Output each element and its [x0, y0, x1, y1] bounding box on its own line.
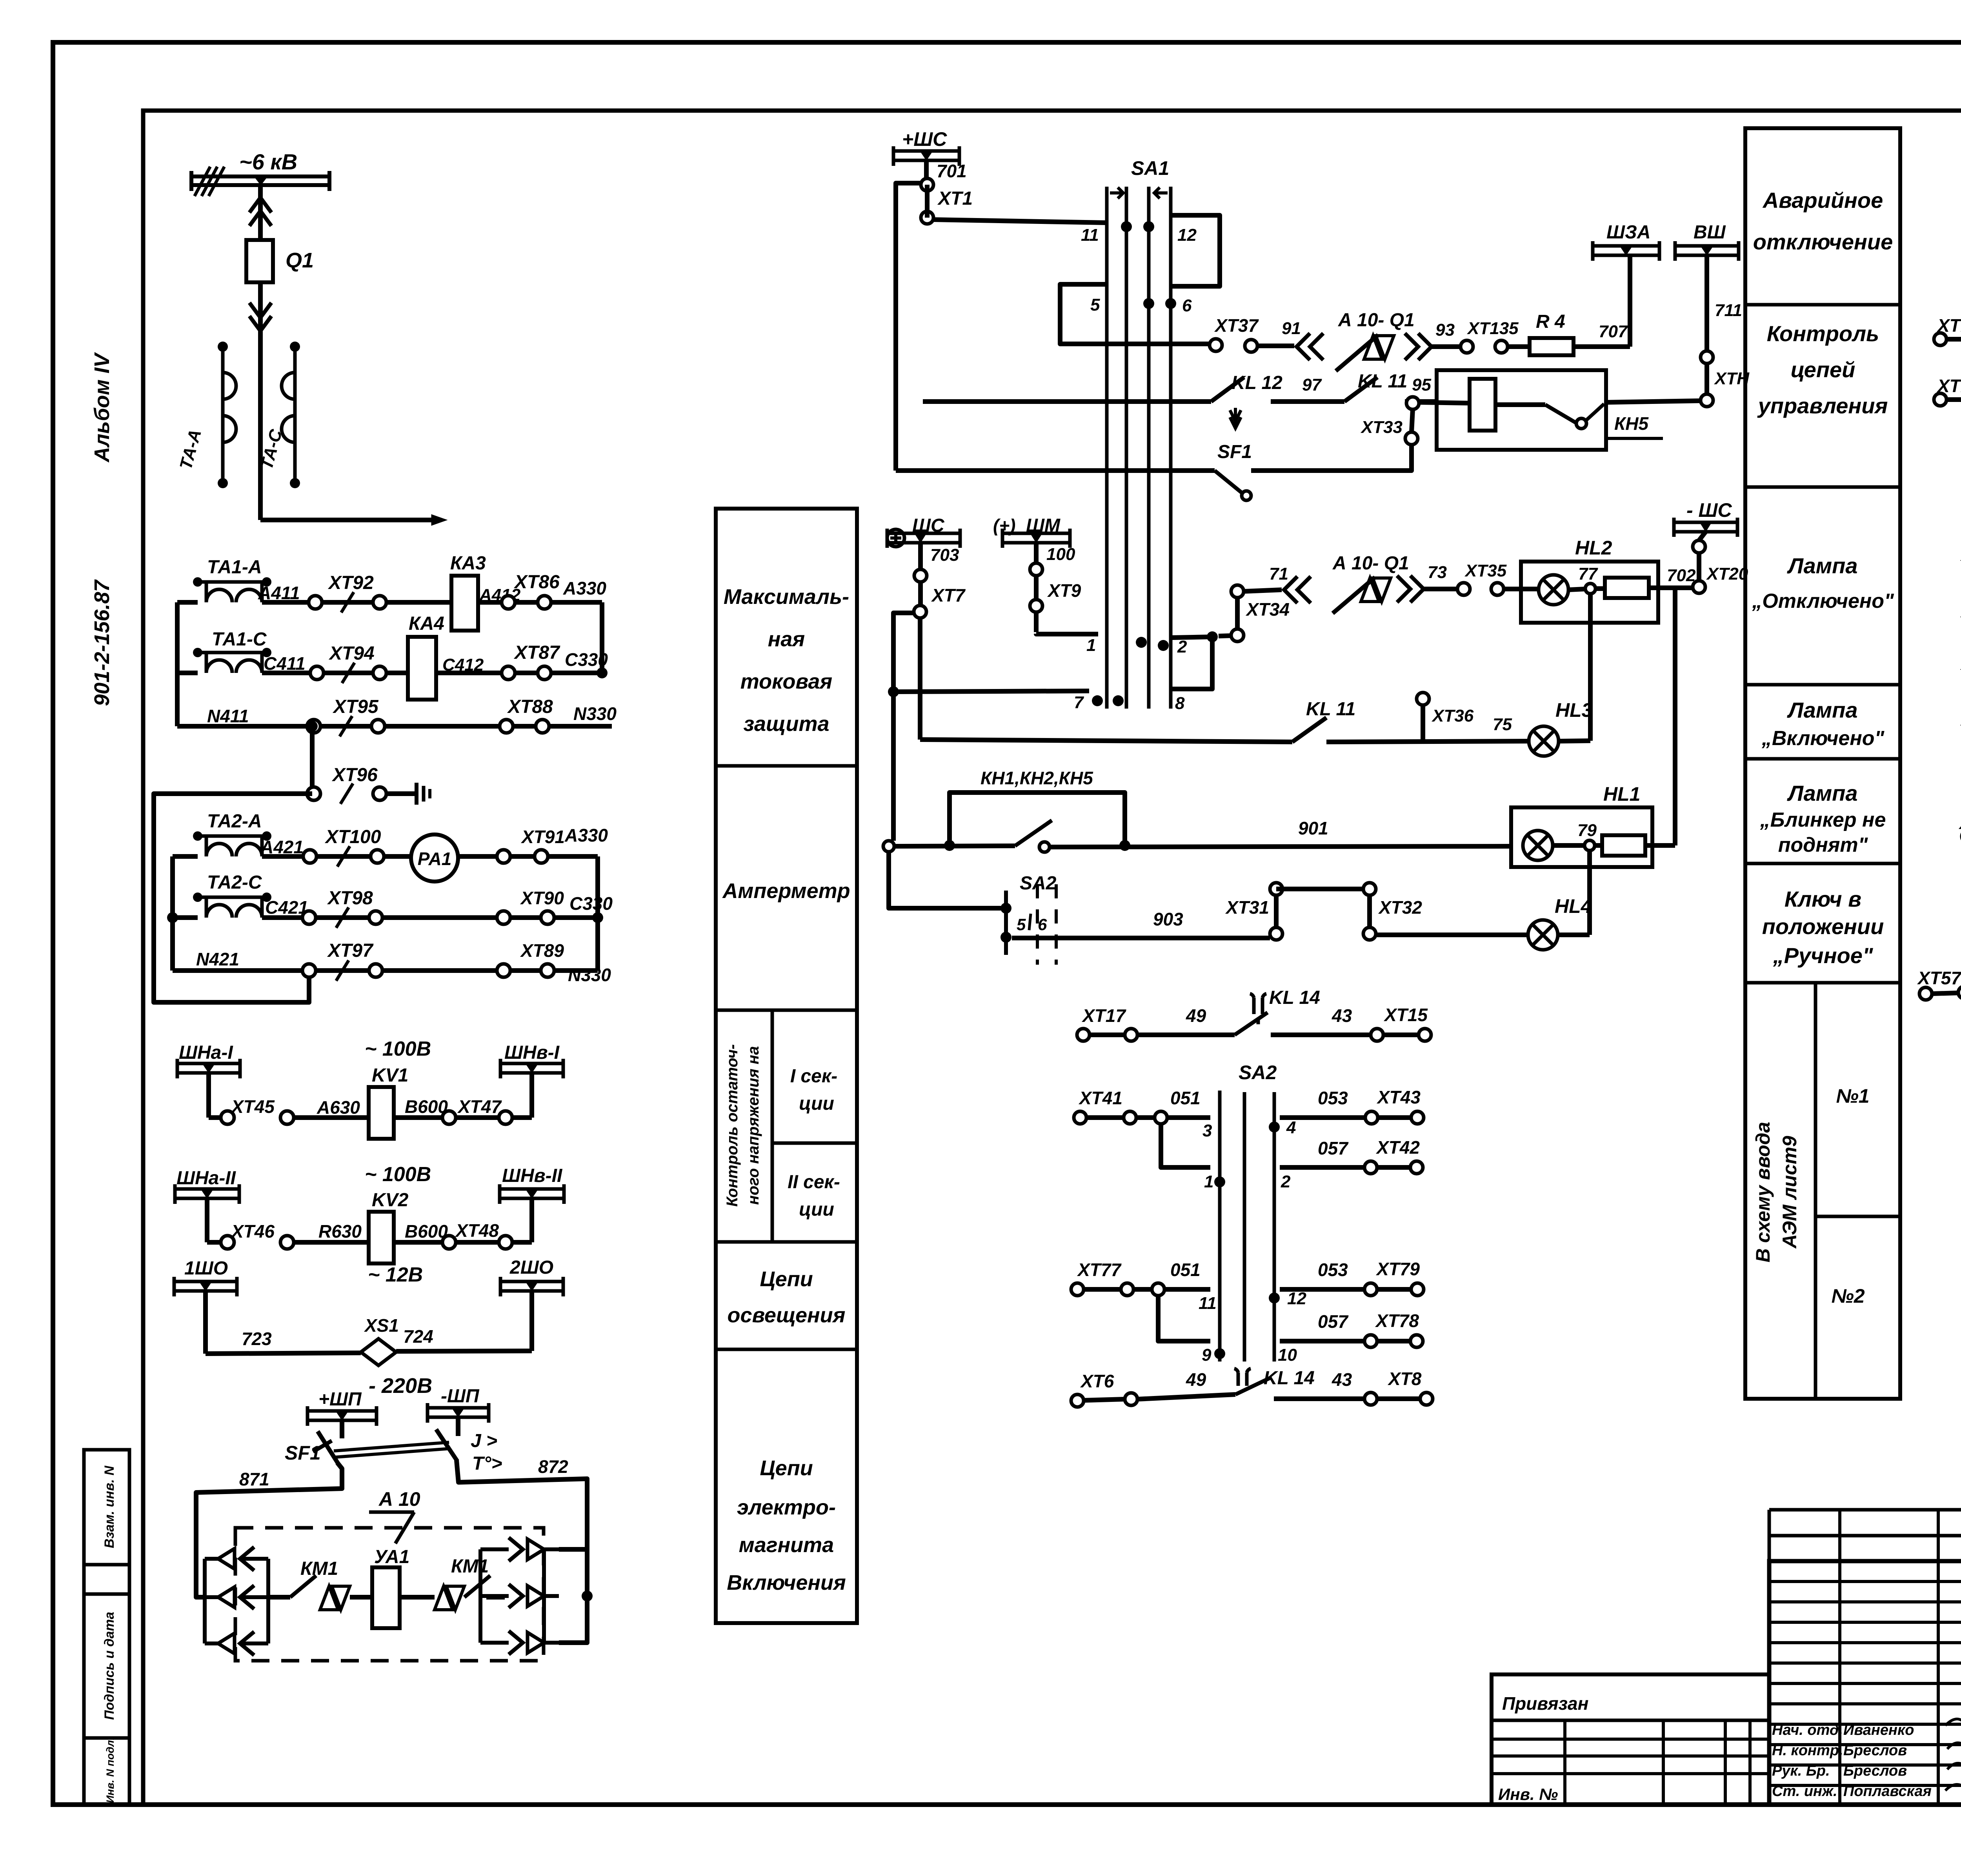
wire 057 row to XT42 — [1280, 1165, 1364, 1170]
terminals XT88 — [500, 720, 513, 733]
svg-text:5: 5 — [1090, 295, 1100, 314]
wire KL11 row left — [920, 740, 1292, 742]
svg-text:ШНа-II: ШНа-II — [176, 1168, 236, 1189]
wire 43 upper — [1271, 1033, 1371, 1037]
svg-text:ШНв-II: ШНв-II — [502, 1165, 563, 1186]
svg-text:ХТ46: ХТ46 — [230, 1221, 275, 1242]
resistor HL1 — [1595, 843, 1602, 848]
wire A412 to A330 — [478, 600, 602, 605]
wire 43 lower — [1274, 1396, 1364, 1401]
svg-text:ХТ89: ХТ89 — [520, 940, 564, 961]
wire 49 KL14 lower — [1137, 1394, 1235, 1399]
svg-text:ХТ95: ХТ95 — [332, 696, 379, 717]
legend column box — [716, 509, 857, 1623]
terminals XT7 — [918, 543, 923, 612]
svg-text:-ШП: -ШП — [441, 1386, 480, 1407]
svg-text:KL 14: KL 14 — [1264, 1368, 1315, 1389]
chevron in 71 — [1284, 576, 1311, 603]
terminals XT46 — [207, 1240, 221, 1245]
SA1 right loop wire — [1171, 215, 1220, 286]
svg-text:2ШО: 2ШО — [509, 1257, 553, 1278]
svg-text:71: 71 — [1269, 564, 1288, 584]
wire XT33 to SF1 row — [1251, 445, 1412, 471]
bus ⊕ШС — [887, 529, 904, 547]
wire row N411 — [177, 724, 612, 729]
svg-text:ХТ1: ХТ1 — [937, 188, 973, 209]
chevron in — [1297, 333, 1323, 360]
wire 724 — [396, 1351, 532, 1351]
svg-text:ТА1-С: ТА1-С — [212, 629, 267, 650]
svg-text:ШНв-I: ШНв-I — [504, 1042, 560, 1063]
wire row A411 — [177, 600, 198, 605]
svg-text:А630: А630 — [317, 1097, 360, 1118]
svg-text:T°>: T°> — [472, 1453, 502, 1474]
wire 053 row to XT43 — [1280, 1115, 1365, 1120]
wire 872 — [457, 1460, 587, 1596]
wire 057 row to XT78 — [1280, 1339, 1364, 1343]
svg-text:управления: управления — [1757, 393, 1888, 418]
svg-text:711: 711 — [1715, 301, 1742, 320]
svg-text:871: 871 — [239, 1469, 269, 1489]
svg-text:ХТ96: ХТ96 — [331, 765, 378, 785]
svg-text:А411: А411 — [258, 583, 300, 603]
mechanical link SF1 — [334, 1442, 449, 1451]
svg-text:Амперметр: Амперметр — [722, 879, 850, 903]
legend Ключ в положении Ручное — [1745, 981, 1900, 985]
svg-text:053: 053 — [1318, 1260, 1348, 1280]
svg-text:УА1: УА1 — [374, 1547, 409, 1567]
wire right vertical ammeter — [595, 856, 600, 971]
wire box to XTH — [1606, 401, 1701, 402]
svg-text:ции: ции — [799, 1093, 834, 1114]
wire 711 — [1705, 255, 1709, 351]
terminals XT86 — [502, 596, 515, 609]
svg-text:АЭМ лист9: АЭМ лист9 — [1779, 1136, 1801, 1249]
wire 871 — [196, 1463, 342, 1597]
svg-text:ХТ97: ХТ97 — [327, 940, 374, 961]
svg-text:903: 903 — [1153, 909, 1183, 929]
SA2 contact dots 9 12 — [1214, 1348, 1225, 1359]
terminals XT8 — [1364, 1392, 1377, 1405]
terminals XT17 — [1077, 1029, 1090, 1041]
svg-text:Лампа: Лампа — [1786, 698, 1857, 722]
contact KH5 — [1545, 405, 1576, 423]
relay KA3 — [451, 576, 478, 631]
svg-text:ХТ91: ХТ91 — [520, 827, 565, 847]
svg-text:ВШ: ВШ — [1694, 222, 1726, 243]
svg-text:Подпись и дата: Подпись и дата — [102, 1612, 117, 1720]
svg-text:отключение: отключение — [1753, 229, 1893, 254]
wire PA1 to A330 — [458, 854, 598, 859]
terminals XT94 — [310, 666, 324, 680]
svg-text:ХТ78: ХТ78 — [1375, 1311, 1419, 1331]
wire XT1 to SA1 — [925, 185, 930, 218]
svg-text:ХТ88: ХТ88 — [507, 696, 553, 717]
svg-text:ХТ42: ХТ42 — [1375, 1137, 1420, 1158]
legend Амперметр — [716, 1009, 857, 1012]
svg-text:Инв. N подл.: Инв. N подл. — [104, 1737, 116, 1803]
wire R630 — [294, 1240, 369, 1245]
svg-text:ХТ15: ХТ15 — [1383, 1005, 1428, 1025]
wire KL12 row — [923, 399, 1211, 404]
svg-text:ХТ41: ХТ41 — [1078, 1088, 1122, 1108]
svg-text:С330: С330 — [569, 893, 613, 914]
terminals XT31 — [1270, 927, 1282, 940]
terminals XT57 — [1919, 987, 1932, 1000]
svg-text:9: 9 — [1202, 1345, 1212, 1365]
svg-text:ШЗА: ШЗА — [1606, 222, 1651, 243]
svg-text:901-2-156.87: 901-2-156.87 — [90, 579, 114, 706]
wire 051 row 3 — [1155, 1111, 1167, 1124]
terminals XT9 — [1034, 543, 1039, 632]
svg-text:ХТ135: ХТ135 — [1466, 319, 1519, 338]
svg-text:ХТ100: ХТ100 — [324, 827, 381, 847]
svg-text:95: 95 — [1412, 375, 1431, 394]
terminals XT78 — [1364, 1335, 1377, 1347]
svg-text:ХТ57: ХТ57 — [1917, 968, 1961, 988]
svg-text:А421: А421 — [260, 837, 304, 857]
svg-text:Лампа: Лампа — [1786, 553, 1857, 578]
svg-text:5: 5 — [1017, 915, 1026, 934]
wire 73 to XT35 — [1424, 587, 1457, 591]
svg-text:ХТ9: ХТ9 — [1047, 580, 1081, 601]
svg-text:77: 77 — [1578, 564, 1598, 584]
ammeter PA1 — [411, 834, 458, 882]
svg-text:6: 6 — [1038, 915, 1047, 934]
right legend column box — [1745, 128, 1900, 1399]
svg-text:12: 12 — [1177, 225, 1197, 245]
terminals XT48 — [442, 1236, 456, 1249]
svg-text:№2: №2 — [1831, 1285, 1865, 1307]
wire XT9 to SA1 contact 1 — [1036, 634, 1098, 634]
terminals XT90 — [497, 911, 510, 924]
node 79 — [1553, 843, 1584, 848]
node 77 — [1568, 589, 1585, 590]
svg-text:Поплавская: Поплавская — [1843, 1783, 1932, 1800]
SA2 contact dots 1 4 — [1214, 1176, 1225, 1187]
table Привязан — [1492, 1674, 1769, 1805]
terminals XT6 — [1071, 1394, 1084, 1407]
svg-text:ШНа-I: ШНа-I — [179, 1042, 233, 1063]
node N411 junction — [307, 721, 318, 732]
terminal XT33 junction — [1406, 397, 1419, 409]
svg-text:А330: А330 — [563, 578, 606, 598]
svg-text:901: 901 — [1298, 818, 1328, 838]
svg-text:ХТ6: ХТ6 — [1080, 1371, 1114, 1391]
svg-text:93: 93 — [1435, 320, 1455, 340]
svg-text:освещения: освещения — [728, 1303, 846, 1327]
svg-text:4: 4 — [1286, 1118, 1296, 1137]
svg-text:КА4: КА4 — [409, 613, 444, 634]
svg-text:ного напряжения на: ного напряжения на — [745, 1046, 762, 1205]
svg-text:- 220В: - 220В — [369, 1374, 432, 1398]
wire 97 — [1271, 399, 1344, 404]
svg-text:~ 100В: ~ 100В — [365, 1038, 431, 1060]
terminals XT96 — [307, 787, 320, 800]
legend N1 — [1815, 1215, 1900, 1218]
svg-text:1: 1 — [1204, 1172, 1213, 1191]
svg-text:ХТ43: ХТ43 — [1376, 1087, 1421, 1107]
svg-text:Максималь-: Максималь- — [724, 585, 849, 609]
svg-text:ХТ7: ХТ7 — [931, 585, 966, 605]
terminals XT95 — [307, 720, 320, 733]
svg-text:~ 100В: ~ 100В — [365, 1163, 431, 1186]
svg-text:79: 79 — [1577, 821, 1597, 840]
relay coil in box — [1470, 379, 1495, 431]
terminals XT47 — [442, 1111, 456, 1124]
terminals XT89 — [497, 964, 510, 977]
svg-text:ХТ35: ХТ35 — [1464, 561, 1507, 580]
svg-text:ХТ87: ХТ87 — [513, 642, 560, 663]
svg-text:43: 43 — [1332, 1369, 1352, 1390]
svg-text:Бреслов: Бреслов — [1843, 1742, 1907, 1759]
svg-text:97: 97 — [1302, 375, 1322, 394]
svg-text:ХТ32: ХТ32 — [1378, 897, 1422, 918]
wire row N421 — [173, 968, 598, 973]
svg-text:75: 75 — [1493, 715, 1512, 734]
svg-text:I сек-: I сек- — [790, 1066, 837, 1087]
terminals XT91 — [497, 850, 510, 863]
svg-text:J >: J > — [471, 1431, 497, 1451]
wire left vertical MTZ — [175, 602, 180, 726]
wire 79 down to HL4 — [1587, 851, 1592, 935]
wire raised link — [1276, 887, 1370, 891]
svg-text:В600: В600 — [405, 1096, 448, 1117]
svg-text:В схему ввода: В схему ввода — [1752, 1122, 1774, 1263]
svg-text:цепей: цепей — [1791, 357, 1855, 382]
chevron out 73 — [1397, 576, 1424, 602]
wire 71 row — [1244, 590, 1282, 591]
socket XS1 — [361, 1339, 396, 1365]
svg-text:А 10- Q1: А 10- Q1 — [1332, 553, 1409, 574]
svg-text:Цепи: Цепи — [760, 1267, 813, 1291]
svg-text:положении: положении — [1762, 914, 1884, 939]
KH bypass loop — [950, 793, 1125, 845]
svg-text:ТА2-А: ТА2-А — [207, 811, 262, 832]
terminals XT45 — [209, 1115, 221, 1120]
coil YA1 — [350, 1595, 372, 1600]
svg-text:43: 43 — [1332, 1005, 1352, 1026]
title block main box — [1769, 1561, 1961, 1805]
wire 95 — [1405, 399, 1437, 404]
svg-text:ХТ90: ХТ90 — [520, 888, 564, 908]
terminals XT43 — [1365, 1111, 1378, 1124]
wire to XT36 and HL3 — [1326, 741, 1529, 742]
svg-text:Н. контр.: Н. контр. — [1772, 1742, 1843, 1759]
wire HL4 up — [1558, 933, 1590, 937]
terminals XT79 — [1364, 1283, 1377, 1296]
terminals XT120 — [1934, 393, 1946, 406]
svg-text:7: 7 — [1074, 693, 1084, 712]
svg-text:Нач. отд.: Нач. отд. — [1772, 1722, 1843, 1738]
svg-text:магнита: магнита — [739, 1533, 834, 1557]
svg-text:ХТ31: ХТ31 — [1225, 897, 1269, 918]
wire C412 to C330 — [436, 671, 602, 675]
wire 702 down to HL1 — [1673, 588, 1677, 845]
title block revision grid — [1769, 1508, 1961, 1512]
svg-text:+ШС: +ШС — [902, 128, 947, 150]
svg-text:II сек-: II сек- — [788, 1172, 840, 1192]
svg-text:ХТ98: ХТ98 — [327, 888, 373, 909]
wire row C411 — [177, 671, 198, 675]
svg-text:ХТ34: ХТ34 — [1245, 599, 1290, 620]
connector pins 1 — [320, 1586, 338, 1610]
wire row C421 — [173, 915, 198, 920]
wire row 7 to SA1 — [893, 691, 1089, 692]
terminals XT37 — [1210, 339, 1222, 351]
svg-text:73: 73 — [1428, 563, 1447, 582]
resistor HL2 — [1595, 586, 1605, 591]
svg-text:723: 723 — [242, 1329, 272, 1349]
CT TA-C — [293, 347, 297, 483]
svg-text:Рук. Бр.: Рук. Бр. — [1772, 1763, 1830, 1779]
relay KV2 — [369, 1212, 394, 1263]
legend Контроль цепей управления — [1745, 485, 1900, 489]
svg-text:702: 702 — [1667, 566, 1696, 585]
terminals XTH — [1701, 351, 1713, 364]
legend Контроль остаточного напряжения — [716, 1240, 857, 1244]
wire ground loop to XT97 — [154, 794, 312, 1002]
svg-text:ХТ94: ХТ94 — [328, 643, 375, 664]
legend Аварийное отключение — [1745, 303, 1900, 307]
svg-text:С412: С412 — [442, 655, 484, 674]
terminal node on stem — [921, 178, 933, 191]
svg-text:Бреслов: Бреслов — [1843, 1763, 1907, 1779]
svg-text:91: 91 — [1282, 319, 1301, 338]
svg-text:ХТ37: ХТ37 — [1214, 315, 1259, 336]
terminals XT35 — [1457, 583, 1470, 595]
svg-text:С411: С411 — [264, 653, 306, 674]
svg-text:~6 кВ: ~6 кВ — [239, 149, 297, 174]
terminal XT1 — [921, 211, 933, 224]
svg-text:Инв. №: Инв. № — [1498, 1785, 1558, 1803]
svg-text:701: 701 — [937, 161, 967, 181]
wire XT7 branches — [918, 618, 922, 740]
svg-text:КА3: КА3 — [450, 553, 486, 574]
svg-text:6: 6 — [1182, 296, 1192, 315]
svg-text:N421: N421 — [196, 949, 239, 969]
svg-text:ХТ92: ХТ92 — [327, 573, 374, 593]
wire contact 2 to XT34 — [1172, 637, 1212, 638]
terminals XT135 — [1461, 340, 1473, 353]
svg-text:2: 2 — [1281, 1172, 1291, 1191]
svg-text:А330: А330 — [564, 825, 608, 845]
lamp HL2 — [1539, 575, 1568, 605]
svg-text:Цепи: Цепи — [760, 1456, 813, 1480]
wire 707 — [1574, 344, 1630, 349]
terminals XT87 — [502, 666, 515, 680]
svg-text:053: 053 — [1318, 1088, 1348, 1108]
svg-text:Ст. инж.: Ст. инж. — [1772, 1783, 1837, 1800]
terminals XT77 — [1071, 1283, 1084, 1296]
svg-text:Ключ в: Ключ в — [1785, 887, 1861, 911]
svg-text:SA1: SA1 — [1131, 157, 1169, 179]
svg-text:А 10: А 10 — [378, 1488, 420, 1510]
wire A630 — [294, 1115, 369, 1120]
resistor R4 — [1508, 344, 1530, 349]
svg-text:ХТ17: ХТ17 — [1081, 1005, 1126, 1026]
svg-text:KV1: KV1 — [372, 1065, 408, 1086]
legend Лампа Отключено — [1745, 683, 1900, 687]
svg-text:А 10- Q1: А 10- Q1 — [1338, 310, 1415, 331]
svg-text:Иваненко: Иваненко — [1843, 1722, 1914, 1738]
legend В схему ввода АЭМ лист9 — [1814, 983, 1817, 1399]
terminals XT92 — [309, 596, 322, 609]
svg-text:872: 872 — [538, 1456, 568, 1477]
relay box KH — [1437, 370, 1606, 450]
svg-text:ХТ120: ХТ120 — [1936, 376, 1961, 396]
terminal XT36 — [1417, 693, 1429, 705]
contact KH in 901 row — [1015, 820, 1052, 846]
svg-text:ХТ116: ХТ116 — [1936, 315, 1961, 336]
svg-text:051: 051 — [1170, 1260, 1201, 1280]
wire 93 to XT135 — [1432, 344, 1461, 349]
relay KV1 — [369, 1087, 394, 1139]
svg-text:В600: В600 — [405, 1221, 448, 1242]
legend Максимальная токовая защита — [716, 764, 857, 768]
svg-text:N330: N330 — [568, 965, 611, 985]
svg-text:„Блинкер не: „Блинкер не — [1760, 809, 1886, 831]
svg-text:HL1: HL1 — [1603, 783, 1640, 805]
signature scribbles — [1945, 1719, 1961, 1728]
svg-text:10: 10 — [1278, 1345, 1297, 1365]
wire B600 II — [394, 1240, 532, 1245]
svg-text:токовая: токовая — [740, 670, 832, 693]
svg-text:49: 49 — [1186, 1005, 1206, 1026]
svg-text:ТА1-А: ТА1-А — [207, 557, 262, 578]
lamp HL1 — [1523, 831, 1553, 860]
svg-text:49: 49 — [1186, 1369, 1206, 1390]
wire into HL2 — [1504, 587, 1539, 591]
legend I секции — [772, 1142, 857, 1145]
wire 91 — [1257, 344, 1294, 348]
connector block left — [203, 1559, 207, 1643]
terminals XT34 — [1231, 585, 1244, 598]
svg-text:Аварийное: Аварийное — [1762, 188, 1883, 213]
wire HL3 to 77 node — [1559, 741, 1590, 741]
svg-text:KL 11: KL 11 — [1306, 699, 1355, 720]
svg-text:защита: защита — [743, 712, 829, 736]
wire 723 — [206, 1353, 361, 1354]
svg-text:R 4: R 4 — [1536, 311, 1565, 332]
svg-text:057: 057 — [1318, 1138, 1349, 1158]
svg-text:2: 2 — [1177, 637, 1187, 656]
wire 051 row 11 — [1152, 1283, 1164, 1296]
breaker Q1 — [246, 240, 273, 282]
svg-text:ХТ8: ХТ8 — [1387, 1369, 1422, 1389]
svg-text:ХТ47: ХТ47 — [457, 1096, 502, 1117]
terminal XT33 lower — [1405, 432, 1418, 445]
connector pins 2 — [400, 1595, 435, 1600]
svg-text:КМ1: КМ1 — [451, 1556, 489, 1577]
SA1 contacts 1-2 — [1136, 637, 1147, 648]
svg-text:N411: N411 — [207, 706, 249, 726]
svg-text:8: 8 — [1175, 694, 1185, 713]
svg-text:HL3: HL3 — [1555, 699, 1593, 721]
wire XT32 to HL4 — [1376, 933, 1528, 937]
svg-text:Взам. инв. N: Взам. инв. N — [102, 1465, 117, 1548]
breaker SF1 pole 2 with releases — [436, 1429, 457, 1461]
svg-text:HL2: HL2 — [1575, 537, 1612, 559]
connector block right — [478, 1549, 482, 1643]
wire feeder turn with arrow — [260, 518, 431, 522]
svg-text:707: 707 — [1599, 322, 1628, 341]
terminals XT97 — [302, 964, 316, 977]
terminals XT100 — [303, 850, 317, 863]
wire SF1 row left — [896, 468, 1215, 473]
wire 77 down to HL3 — [1588, 594, 1593, 741]
svg-text:KL 14: KL 14 — [1269, 987, 1320, 1008]
